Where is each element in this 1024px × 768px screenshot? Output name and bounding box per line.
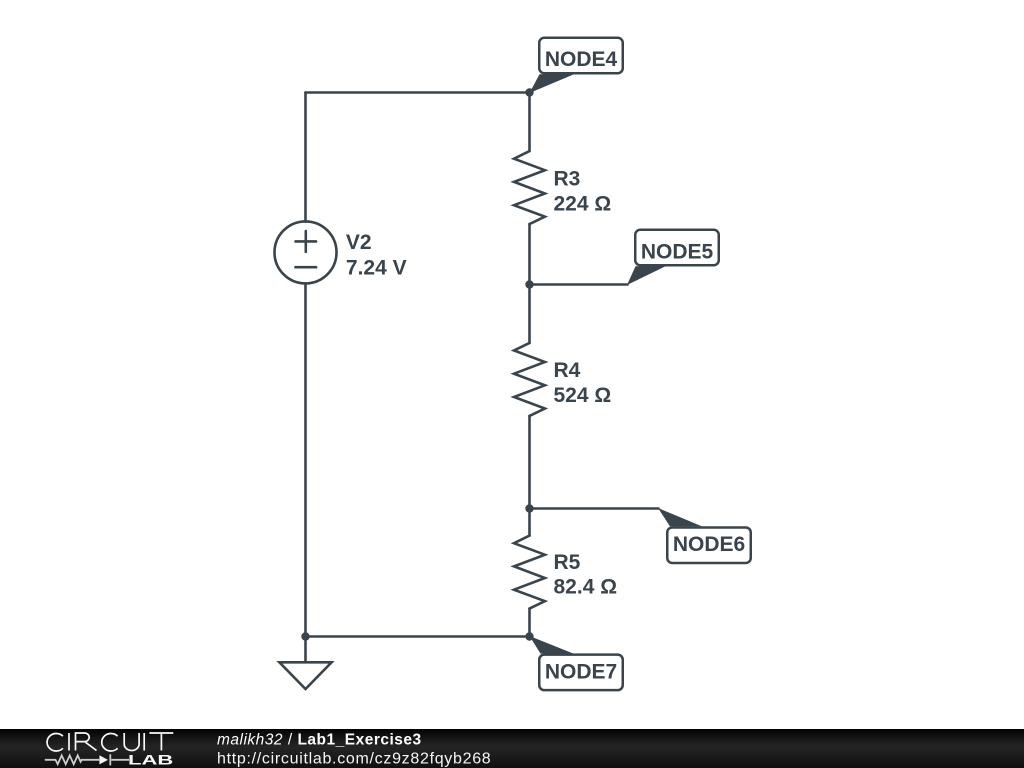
resistor R5 bbox=[514, 536, 545, 609]
logo CIRCUIT lettering bbox=[47, 733, 173, 751]
wire right rail seg2 bbox=[528, 224, 531, 343]
logo letter I1 bbox=[68, 733, 70, 751]
svg-text:V2: V2 bbox=[346, 231, 372, 254]
V2 minus sign bbox=[296, 266, 317, 269]
NODE6 callout tail bbox=[658, 508, 702, 526]
wire right rail seg4 bbox=[528, 609, 531, 637]
NODE6 callout box bbox=[667, 527, 751, 563]
wire right rail seg1 bbox=[528, 93, 531, 152]
V2 plus sign bbox=[296, 231, 317, 252]
svg-text:R5: R5 bbox=[554, 551, 581, 574]
wire to NODE6 bbox=[530, 507, 659, 510]
voltage source V2 circle bbox=[275, 221, 337, 283]
junction dot at NODE7 (bottom rail right) bbox=[525, 632, 533, 640]
logo letter C1 bbox=[47, 734, 63, 752]
logo resistor squiggle bbox=[45, 754, 129, 765]
resistor R3 bbox=[514, 151, 545, 224]
svg-text:R4: R4 bbox=[554, 359, 581, 382]
wire left rail lower bbox=[304, 283, 307, 636]
logo letter R bbox=[76, 733, 97, 751]
NODE7 callout tail bbox=[530, 636, 574, 654]
wire left rail upper bbox=[304, 93, 307, 222]
NODE5 callout box bbox=[635, 230, 719, 266]
resistor R4 bbox=[514, 343, 545, 416]
svg-text:524 Ω: 524 Ω bbox=[554, 384, 612, 407]
footer bar bbox=[0, 729, 1024, 768]
svg-text:NODE4: NODE4 bbox=[545, 48, 618, 71]
NODE7 callout box bbox=[539, 655, 623, 691]
junction dot at NODE4 (top rail) bbox=[525, 88, 533, 96]
logo diode triangle bbox=[99, 755, 108, 764]
svg-text:NODE5: NODE5 bbox=[641, 241, 714, 264]
logo letter T bbox=[149, 733, 173, 751]
junction dot at NODE6 bbox=[525, 504, 533, 512]
junction dot at NODE5 bbox=[525, 280, 533, 288]
NODE5 callout tail bbox=[627, 266, 666, 285]
wire to NODE5 bbox=[530, 283, 628, 286]
logo letter U bbox=[124, 733, 139, 751]
NODE4 callout tail bbox=[530, 74, 575, 93]
logo letter C2 bbox=[102, 734, 118, 752]
logo letter I2 bbox=[143, 733, 145, 751]
svg-text:82.4 Ω: 82.4 Ω bbox=[554, 575, 618, 598]
svg-text:7.24 V: 7.24 V bbox=[346, 256, 407, 279]
wire right rail seg3 bbox=[528, 416, 531, 536]
svg-text:NODE7: NODE7 bbox=[545, 661, 617, 684]
ground triangle bbox=[279, 662, 331, 689]
junction dot bottom rail left (ground tap) bbox=[301, 632, 309, 640]
svg-text:R3: R3 bbox=[554, 168, 581, 191]
svg-text:224 Ω: 224 Ω bbox=[554, 193, 612, 216]
ground stub wire bbox=[304, 637, 307, 663]
NODE4 callout box bbox=[539, 38, 623, 74]
wire top horizontal bbox=[306, 91, 530, 94]
wire bottom horizontal bbox=[306, 635, 530, 638]
svg-text:NODE6: NODE6 bbox=[673, 533, 745, 556]
